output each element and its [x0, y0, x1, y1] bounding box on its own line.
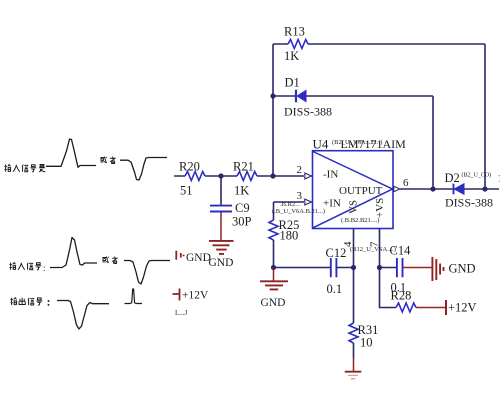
- wire output rail: [400, 188, 499, 190]
- waveform negative pulse row1: [120, 158, 167, 181]
- svg-text::: :: [43, 263, 46, 273]
- svg-text:1K: 1K: [284, 49, 299, 63]
- svg-text:(B2_U_CO): (B2_U_CO): [462, 172, 492, 179]
- svg-text:D2: D2: [445, 171, 460, 185]
- svg-text:(.B.B2.B21....): (.B.B2.B21....): [341, 217, 379, 224]
- waveform positive pulse row2: [50, 238, 97, 268]
- +12V symbol row3: [173, 289, 180, 301]
- ground right of C14: [432, 257, 475, 281]
- svg-text:+12V: +12V: [182, 290, 209, 302]
- node output D1 junction: [430, 186, 435, 191]
- wire junction to C12: [274, 267, 331, 269]
- svg-text:1K: 1K: [234, 184, 249, 198]
- diode D2: [445, 171, 494, 210]
- wire junction to gnd: [273, 268, 275, 281]
- capacitor C12: [326, 246, 347, 296]
- node junction C9: [218, 173, 223, 178]
- wire top rail R13: [273, 43, 485, 45]
- svg-text:R20: R20: [179, 160, 200, 174]
- wire pin7 node to C14: [380, 267, 397, 269]
- wire pin3 down to R25: [273, 202, 275, 220]
- svg-text:DISS-388: DISS-388: [445, 196, 493, 210]
- svg-text:2: 2: [297, 164, 303, 176]
- wire left vertical: [272, 44, 274, 176]
- wire D1 down to output: [432, 96, 434, 189]
- ground under R31: [345, 372, 362, 379]
- node pin7 C14 junction: [377, 265, 382, 270]
- wire R31 down: [353, 343, 355, 358]
- svg-text:R28: R28: [391, 289, 412, 303]
- svg-text:GND: GND: [186, 252, 211, 264]
- op-amp U4 box: [313, 137, 407, 229]
- svg-text:6: 6: [403, 177, 409, 189]
- wire pin 7 vertical: [379, 229, 381, 268]
- capacitor C14: [390, 244, 412, 295]
- svg-text:30P: 30P: [232, 215, 252, 229]
- wire R31 to gnd red: [353, 358, 355, 371]
- wire C12 to pin4 line: [336, 267, 353, 269]
- resistor R25: [269, 218, 299, 243]
- wire C14 to gnd: [403, 267, 432, 269]
- waveform big negative pulse row3: [57, 301, 109, 330]
- svg-text:OUTPUT: OUTPUT: [339, 185, 383, 197]
- svg-text:D1: D1: [285, 76, 300, 90]
- resistor R13: [284, 25, 308, 64]
- svg-text:(B2_U_V6A...21..): (B2_U_V6A...21..): [332, 139, 382, 146]
- node R25 junction: [271, 265, 276, 270]
- svg-text:+IN: +IN: [323, 198, 341, 210]
- label 输入信号: row2: [9, 263, 45, 273]
- +12V symbol center: [445, 300, 447, 315]
- svg-text:GND: GND: [261, 297, 286, 309]
- svg-text:GND: GND: [209, 257, 234, 269]
- pin 6 arrow: [394, 186, 400, 191]
- wire R28 to +12V: [416, 307, 445, 309]
- svg-text:(B12_U_VSA....): (B12_U_VSA....): [350, 246, 396, 253]
- pin 2 arrow: [305, 173, 312, 179]
- svg-text:C9: C9: [235, 201, 250, 215]
- wire node to C9: [220, 176, 222, 205]
- svg-text:C12: C12: [326, 246, 347, 260]
- resistor R20: [179, 160, 205, 198]
- svg-text:GND: GND: [449, 262, 476, 276]
- waveform small spike row3: [125, 289, 143, 304]
- label 输出信号： row3: [10, 298, 49, 306]
- resistor R31: [349, 323, 378, 350]
- wire C9 to gnd: [220, 212, 222, 240]
- resistor R21: [233, 160, 257, 198]
- node output right junction: [482, 186, 487, 191]
- waveform positive pulse row1: [46, 139, 96, 167]
- label 或者 row2: [102, 256, 117, 263]
- svg-text:(.B_U_V6A.B.21...): (.B_U_V6A.B.21...): [272, 208, 325, 215]
- wire right vertical: [484, 44, 486, 189]
- ground under C9: [209, 241, 234, 269]
- svg-text:180: 180: [280, 229, 299, 243]
- svg-text:R21: R21: [233, 160, 254, 174]
- wire R25 to junction: [273, 240, 275, 268]
- svg-text:0.1: 0.1: [327, 282, 343, 296]
- ground under R25: [260, 281, 288, 309]
- wire input rail: [174, 175, 304, 177]
- svg-text:R13: R13: [284, 25, 305, 39]
- wire pin 4 vertical: [353, 229, 355, 323]
- wire D1 rail: [273, 95, 433, 97]
- label 或者 (or) row1: [100, 157, 115, 164]
- gnd bars row2: [176, 251, 183, 260]
- svg-text:VS: VS: [348, 200, 360, 214]
- diode D1: [284, 76, 332, 119]
- svg-text:+VS: +VS: [374, 198, 386, 218]
- svg-text:DISS-388: DISS-388: [284, 105, 332, 119]
- svg-text:-IN: -IN: [323, 169, 338, 181]
- svg-text:U4: U4: [313, 137, 329, 152]
- pin 3 wire: [274, 201, 305, 203]
- capacitor C9: [210, 201, 252, 229]
- resistor R28: [391, 289, 416, 313]
- svg-text:+12V: +12V: [448, 301, 477, 315]
- node pin4 C12 junction: [351, 265, 356, 270]
- wire pin7 node down to R28: [380, 268, 397, 308]
- node D1 left: [270, 93, 275, 98]
- waveform negative pulse row2: [124, 261, 170, 285]
- pin 3 arrow: [305, 199, 312, 205]
- svg-text:51: 51: [180, 184, 193, 198]
- svg-text:.B.R2...: .B.R2...: [280, 201, 300, 208]
- svg-text:10: 10: [360, 336, 373, 350]
- node input junction: [270, 173, 275, 178]
- svg-text:L...J: L...J: [175, 309, 188, 317]
- label 输入信号是 (input signal is): [4, 165, 45, 172]
